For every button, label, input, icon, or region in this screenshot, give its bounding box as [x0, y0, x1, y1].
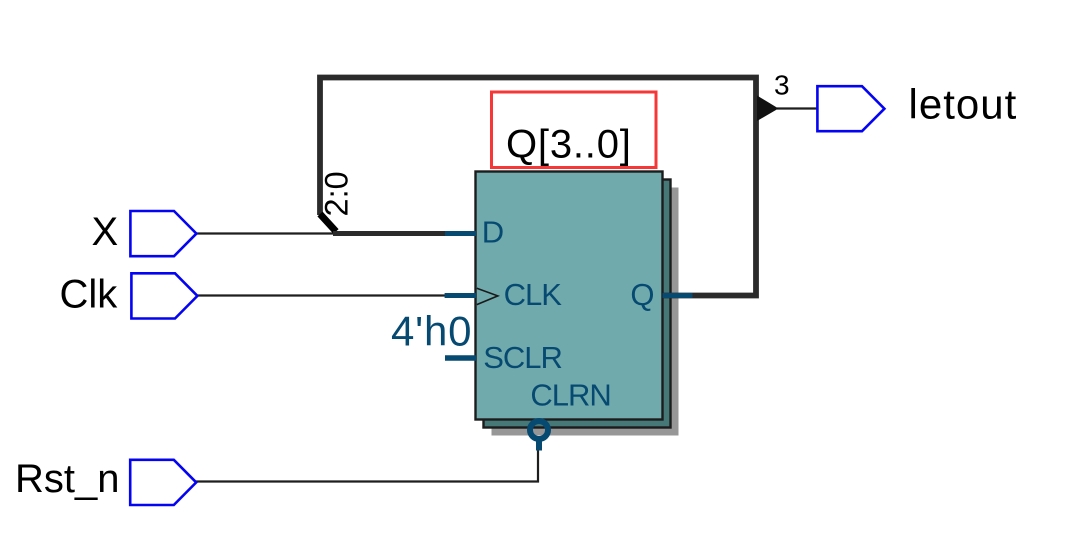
svg-text:Q[3..0]: Q[3..0]: [506, 123, 632, 167]
svg-text:4'h0: 4'h0: [391, 308, 472, 355]
red highlight box Q[3..0]: [492, 92, 657, 168]
port stub SCLR: [445, 355, 476, 361]
CLRN stub: [536, 442, 542, 451]
bus segment to D: [333, 231, 446, 236]
svg-text:CLK: CLK: [504, 277, 563, 312]
register FF main body: [476, 172, 663, 420]
wire Rst_n thin: [196, 449, 538, 482]
svg-text:X: X: [92, 210, 119, 254]
output pin letout symbol: [817, 86, 884, 131]
svg-text:Q: Q: [630, 277, 653, 312]
svg-text:SCLR: SCLR: [483, 340, 562, 375]
svg-text:letout: letout: [909, 81, 1018, 128]
port stub D: [445, 231, 476, 236]
port stub Q: [663, 293, 693, 298]
bus diagonal ripper: [320, 214, 336, 232]
wire X thin: [196, 232, 337, 234]
input pin X symbol: [130, 211, 196, 256]
svg-text:D: D: [482, 215, 503, 250]
register shadow: [492, 188, 679, 436]
port stub CLK: [445, 293, 476, 298]
input pin Clk symbol: [131, 273, 197, 318]
clock triangle: [477, 288, 498, 304]
bus feedback loop thick: [320, 78, 756, 296]
svg-text:3: 3: [774, 70, 790, 101]
svg-text:Rst_n: Rst_n: [15, 457, 120, 501]
bus tap triangle bit3: [757, 96, 779, 122]
svg-text:2:0: 2:0: [319, 171, 355, 216]
wire letout thin: [777, 107, 818, 109]
wire Clk thin: [197, 294, 446, 296]
CLRN bubble: [530, 421, 548, 439]
input pin Rst_n symbol: [130, 460, 196, 505]
svg-text:Clk: Clk: [60, 273, 119, 317]
svg-text:CLRN: CLRN: [530, 377, 610, 412]
register stacked rect 2: [484, 180, 671, 428]
